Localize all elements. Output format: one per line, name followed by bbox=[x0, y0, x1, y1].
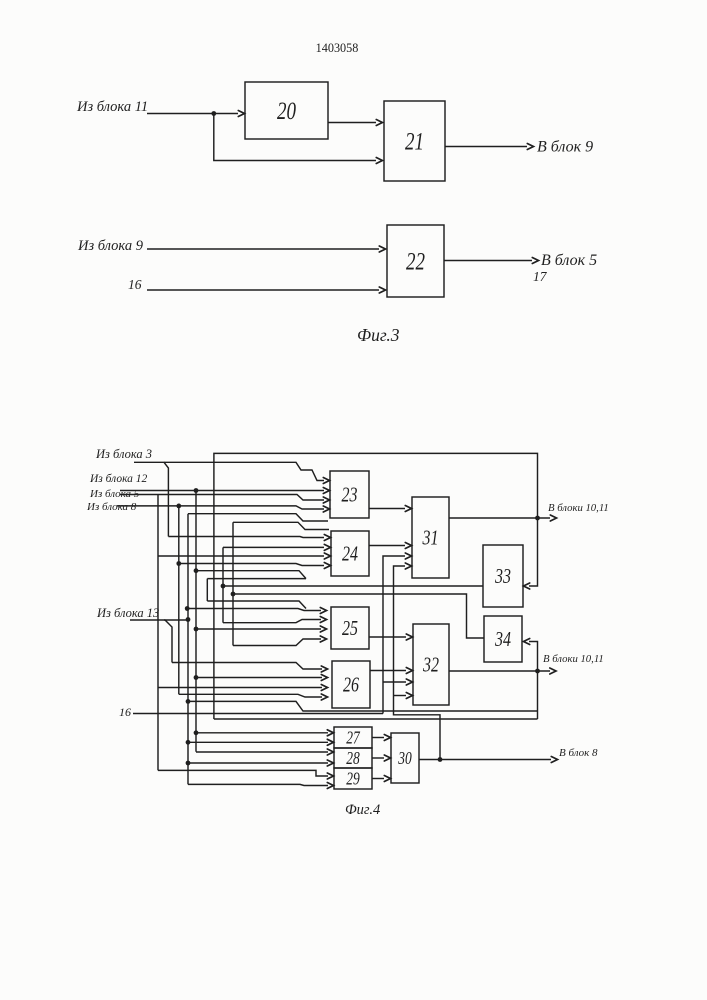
node junction v196 629 bbox=[194, 627, 199, 632]
wire to block 27 input 1 bbox=[196, 730, 334, 736]
block 27 bbox=[334, 727, 372, 748]
label 16 fig4 bbox=[119, 705, 131, 719]
node junction блока 8 bus bbox=[176, 504, 181, 509]
wire to block 26 input 4 bbox=[179, 694, 328, 700]
svg-text:29: 29 bbox=[346, 770, 360, 789]
wire block 33 output to bus bbox=[223, 585, 483, 587]
wire to block 24 input 3 bbox=[158, 553, 331, 559]
wire low horizontal to output bus bbox=[188, 701, 538, 711]
block 25 bbox=[331, 607, 369, 649]
wire junction v196 to under-31 line bbox=[196, 571, 306, 579]
wire branch to block 32 input 3 bbox=[383, 679, 413, 685]
node junction v188 763 bbox=[186, 761, 191, 766]
wire low horizontal 719 bbox=[214, 718, 538, 720]
label 16 fig3 bbox=[128, 277, 142, 292]
node junction 31 output bbox=[535, 516, 540, 521]
block 34 bbox=[484, 616, 522, 662]
wire to block 26 input 3 bbox=[158, 685, 328, 691]
block 21 bbox=[384, 101, 445, 181]
wire block 26 output to 32 bbox=[370, 668, 413, 674]
svg-text:В блок 9: В блок 9 bbox=[537, 139, 593, 156]
bus vertical v233 bbox=[232, 522, 234, 645]
label В блок 9 bbox=[537, 139, 593, 156]
wire v207 corner line bbox=[207, 601, 306, 609]
label в блок 5 bbox=[541, 252, 597, 269]
wire 16 bus up to block 31 input 3 bbox=[383, 553, 412, 714]
wire блока 3 staircase to block 23 input 1 bbox=[164, 462, 330, 483]
label 17 bbox=[533, 269, 548, 284]
bus vertical v158 bbox=[157, 495, 159, 771]
wire top line to block 33 right input bbox=[214, 453, 538, 719]
wire bus v168 corner to block 24 input 1 bbox=[168, 535, 330, 541]
wire 16 to block 22 bbox=[147, 287, 386, 293]
wire 16 horizontal bbox=[133, 713, 383, 715]
node junction v196 570 bbox=[194, 568, 199, 573]
bus vertical v196 bbox=[195, 491, 197, 752]
wire block 30 output в блок 8 bbox=[419, 757, 558, 763]
svg-text:Из блока 13: Из блока 13 bbox=[96, 606, 159, 620]
bus vertical v207 bbox=[206, 579, 208, 601]
svg-text:Из блока 11: Из блока 11 bbox=[76, 99, 148, 115]
svg-text:31: 31 bbox=[422, 527, 439, 551]
wire to block 29 input 2 bbox=[188, 783, 334, 789]
wire v233 top staircase bbox=[233, 522, 329, 529]
block 32 bbox=[413, 624, 449, 705]
svg-text:26: 26 bbox=[343, 674, 360, 698]
wire block 25 output to 32 bbox=[369, 634, 413, 640]
svg-text:34: 34 bbox=[494, 628, 511, 652]
caption Фиг.4 bbox=[345, 802, 380, 818]
node junction блока 12 bus bbox=[194, 488, 199, 493]
wire to block 25 input 3 bbox=[196, 626, 327, 632]
block 26 bbox=[332, 661, 370, 708]
svg-text:22: 22 bbox=[406, 247, 425, 275]
wire block 21 output В блок 9 bbox=[445, 144, 534, 150]
label Из блока 9 bbox=[77, 238, 144, 254]
label Из блока 13 bbox=[96, 606, 159, 620]
svg-text:Из блока 8: Из блока 8 bbox=[86, 501, 137, 513]
wire block 29 output to 30 bbox=[372, 776, 391, 782]
node junction on блока 11 wire bbox=[211, 111, 216, 116]
node junction 32 output bbox=[535, 669, 540, 674]
block 31 bbox=[412, 497, 449, 578]
caption Фиг.3 bbox=[357, 325, 400, 345]
node junction v196 733 bbox=[194, 730, 199, 735]
svg-text:28: 28 bbox=[346, 749, 360, 768]
wire to block 29 input 1 bbox=[158, 770, 334, 779]
wire to block 24 input 4 bbox=[179, 563, 331, 569]
wire block 28 output to 30 bbox=[372, 755, 391, 761]
node junction v223 586 bbox=[221, 584, 226, 589]
wire long horizontal z-connector bbox=[207, 578, 306, 580]
label Из блока 12 bbox=[89, 473, 148, 485]
node junction v196 677 bbox=[194, 675, 199, 680]
label Из блока 3 bbox=[95, 447, 152, 461]
wire Из блока 12 to block 23 input 2 bbox=[120, 488, 330, 494]
svg-text:Из блока 3: Из блока 3 bbox=[95, 447, 152, 461]
wire to block 26 input 1 bbox=[172, 663, 328, 673]
wire block 31 output в блоки 10,11 bbox=[449, 515, 557, 521]
wire block 20 output to block 21 bbox=[328, 120, 383, 126]
wire Из блока 8 to block 23 input 4 bbox=[117, 506, 330, 512]
wire block 30 feedback vertical bbox=[394, 563, 441, 760]
node junction v188 608 bbox=[185, 606, 190, 611]
svg-text:1403058: 1403058 bbox=[316, 41, 359, 55]
wire to block 26 input 2 bbox=[196, 675, 328, 681]
svg-text:В блок 8: В блок 8 bbox=[559, 747, 598, 759]
svg-text:Из блока 9: Из блока 9 bbox=[77, 238, 144, 254]
block 23 bbox=[330, 471, 369, 518]
svg-text:Фиг.4: Фиг.4 bbox=[345, 802, 380, 818]
wire to block 27 input 2 bbox=[188, 739, 334, 745]
wire блока 13 horizontal to bus bbox=[164, 619, 189, 621]
patent number label bbox=[316, 41, 359, 55]
bus vertical v178 bbox=[178, 506, 180, 694]
wire Из блока 5 to block 23 input 3 bbox=[120, 495, 330, 504]
wire блока 9 to block 22 bbox=[147, 246, 386, 252]
block 24 bbox=[331, 531, 369, 576]
bus vertical v223 bbox=[222, 547, 224, 622]
wire Из блока 3 into bus bbox=[134, 462, 168, 536]
wire to block 25 input 2 bbox=[223, 617, 327, 623]
bus vertical v188 bbox=[187, 514, 189, 785]
wire to block 24 input 2 bbox=[223, 544, 331, 550]
block 28 bbox=[334, 748, 372, 769]
svg-text:В блоки 10,11: В блоки 10,11 bbox=[543, 653, 604, 665]
label Из блока 8 bbox=[86, 501, 137, 513]
wire bus to block 34 left input bbox=[233, 594, 484, 638]
wire to block 28 input 1 bbox=[196, 749, 334, 755]
wire block 24 output to 31 bbox=[369, 543, 412, 549]
wire block 27 output to 30 bbox=[372, 735, 391, 741]
svg-text:20: 20 bbox=[277, 97, 296, 125]
wire branch to block 21 lower input bbox=[214, 114, 383, 164]
node junction v178 563 bbox=[176, 561, 181, 566]
svg-text:33: 33 bbox=[494, 565, 511, 589]
wire block 23 output to 31 bbox=[369, 506, 412, 512]
svg-text:27: 27 bbox=[346, 729, 360, 748]
svg-text:16: 16 bbox=[128, 277, 142, 292]
block 22 bbox=[387, 225, 444, 297]
node junction 30 output bbox=[438, 757, 443, 762]
label в блок 8 bbox=[559, 747, 598, 759]
svg-text:17: 17 bbox=[533, 269, 548, 284]
wire branch to block 32 input 4 bbox=[394, 693, 413, 699]
wire vertical to block 34 right input bbox=[524, 639, 538, 720]
label в блоки 10,11 upper bbox=[548, 502, 609, 514]
wire v188 top staircase bbox=[188, 514, 328, 521]
block 30 bbox=[391, 733, 419, 783]
wire to block 25 input 1 bbox=[187, 608, 326, 614]
label Из блока 5 bbox=[89, 488, 140, 500]
svg-text:32: 32 bbox=[422, 654, 439, 678]
wire block 22 output в блок 5 bbox=[444, 258, 539, 264]
wire Из блока 13 bbox=[130, 620, 172, 663]
node junction v188 619 bbox=[186, 617, 191, 622]
block 20 bbox=[245, 82, 328, 139]
svg-text:30: 30 bbox=[397, 749, 411, 768]
svg-text:23: 23 bbox=[342, 484, 358, 508]
wire from блока 11 to block 20 bbox=[147, 111, 245, 117]
label в блоки 10,11 lower bbox=[543, 653, 604, 665]
svg-text:25: 25 bbox=[342, 617, 358, 641]
wire block 32 output в блоки 10,11 bbox=[449, 668, 556, 674]
wire to block 25 input 4 bbox=[233, 636, 327, 646]
block 33 bbox=[483, 545, 523, 607]
node junction v188 742 bbox=[186, 740, 191, 745]
svg-text:В блок 5: В блок 5 bbox=[541, 252, 597, 269]
svg-text:Фиг.3: Фиг.3 bbox=[357, 325, 400, 345]
node junction v188 701 bbox=[186, 699, 191, 704]
svg-text:16: 16 bbox=[119, 705, 131, 719]
label Из блока 11 bbox=[76, 99, 148, 115]
block 29 bbox=[334, 768, 372, 789]
wire to block 28 input 2 bbox=[188, 760, 334, 766]
svg-text:24: 24 bbox=[342, 543, 358, 567]
svg-text:Из блока 12: Из блока 12 bbox=[89, 473, 148, 485]
node junction v233 594 bbox=[231, 592, 236, 597]
svg-text:В блоки 10,11: В блоки 10,11 bbox=[548, 502, 609, 514]
svg-text:21: 21 bbox=[405, 127, 424, 155]
